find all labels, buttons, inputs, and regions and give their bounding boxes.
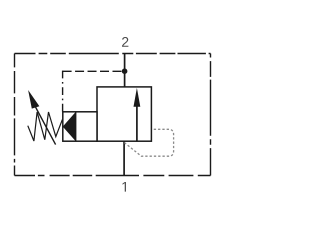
flow arrow shaft — [136, 103, 138, 141]
adjustment arrow head — [28, 90, 39, 109]
enclosure border right edge — [210, 54, 212, 176]
main valve body square — [97, 87, 151, 141]
drain pilot line (gray dashed, rounded) — [124, 129, 173, 156]
port 1 label — [123, 182, 126, 192]
spring — [28, 112, 63, 141]
adjustment arrow shaft — [36, 107, 56, 144]
flow arrow head — [134, 88, 141, 107]
enclosure border left edge — [14, 54, 16, 176]
pilot line horizontal (dashed) — [63, 70, 122, 72]
pilot line vertical (dash-dot) — [62, 71, 64, 112]
port 2 label — [122, 37, 128, 47]
enclosure border bottom edge — [15, 175, 211, 177]
port 1 line — [123, 141, 125, 175]
port 2 line — [124, 54, 126, 88]
poppet triangle (black, pointing left) — [63, 112, 76, 140]
pilot stage box — [63, 112, 97, 141]
enclosure border top edge (dash-dot envelope) — [15, 53, 211, 55]
junction dot — [122, 68, 128, 74]
